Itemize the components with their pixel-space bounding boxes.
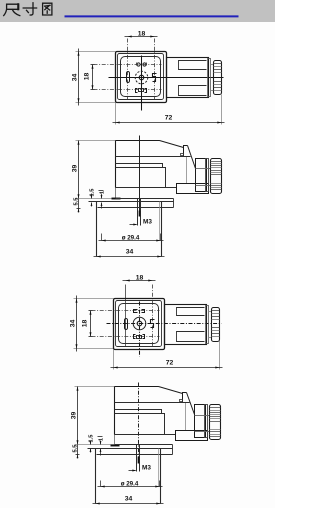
view 1A: cable housing inner recess upper	[179, 61, 207, 70]
view 1A: dim 18 horizontal - dimension line with arrows and label	[125, 36, 158, 38]
view 2A: cable housing inner recess lower	[177, 332, 205, 342]
view 2B: screw axis centerline	[138, 383, 140, 461]
view 2A: center dot	[139, 323, 140, 324]
view 2B: housing left edge lower (to mounting face)	[114, 435, 116, 445]
view 1B: clamp screw detail square	[181, 154, 184, 156]
view 1A: connector square body middle outline	[118, 54, 164, 100]
view 2A: connector square body middle outline	[116, 301, 162, 347]
view 1A: gland nut ridges	[214, 63, 222, 65]
view 1B: mounting face A line (with thick gasket mark)	[76, 198, 116, 200]
svg-text:34: 34	[70, 320, 77, 328]
view 1B: dim 1.5 - arrows and label	[91, 194, 93, 199]
view 2A: dim 34 vertical - extension lines	[74, 298, 114, 300]
view 1A: central screw boss circle (outer)	[135, 71, 148, 84]
view 2A: cable housing inner recess upper	[177, 308, 205, 316]
view 1B: dim 39 - top extension line	[76, 140, 116, 142]
view 1A: vertical centerline of square	[141, 56, 143, 111]
view 2B: clamp screw detail square	[180, 400, 183, 402]
view 2B: skirt right wall (extends to 34 dim)	[160, 449, 162, 504]
svg-text:72: 72	[165, 115, 173, 122]
view 2A: top contact pair (two small brackets)	[134, 310, 138, 313]
svg-text:ø 29.4: ø 29.4	[121, 481, 139, 488]
svg-text:39: 39	[72, 165, 79, 173]
view 1A: dim 34 vertical - extension lines	[76, 51, 116, 53]
view 2B: gland nut ridges	[210, 407, 221, 409]
view 2B: skirt left wall (extends to 34 dim)	[95, 449, 97, 504]
view 2B: M3 thread mark	[138, 457, 140, 464]
view 2B: gland support foot	[176, 431, 208, 441]
title 尺寸图 (chinese glyph strokes drawn as paths)	[4, 3, 52, 16]
view 2B: cable clamp hook	[183, 393, 187, 403]
view 2B: dim 1 - arrows and label	[100, 441, 102, 445]
view 1B: M3 thread mark	[139, 211, 141, 217]
view 2A: gland nut ridges	[212, 310, 220, 312]
view 2B: gland thread stem lines	[195, 415, 210, 417]
svg-text:18: 18	[136, 275, 144, 282]
view 2B: dim 5.5 - dimension line, arrows, label	[77, 445, 79, 459]
view 1B: skirt right wall inner line	[159, 202, 161, 241]
view 2B: body step line upper	[115, 410, 162, 414]
view 1A: top pin-row centerline horizontal	[94, 64, 162, 66]
view 1A: cable housing inner recess lower	[179, 86, 207, 96]
view 2A: right pin centerline vertical (extension of 18 dim)	[152, 285, 154, 347]
view 1A: dim 18 vertical - dimension line, arrows, label	[92, 65, 94, 90]
view 1B: housing top edge	[116, 140, 160, 142]
view 2A: gland thread stem lines	[209, 311, 212, 313]
view 2A: left pin centerline vertical (extension of 18 dim)	[125, 285, 127, 347]
view 2A: gland nut outline	[212, 308, 220, 342]
view 2B: housing rear chamfer	[187, 393, 195, 415]
view 1B: housing left edge lower (to mounting face)	[115, 188, 117, 199]
view 1B: flange right edge	[173, 199, 175, 208]
view 2B: M3 leader line and arrow	[129, 470, 136, 472]
view 2B: M3 screw hole walls	[136, 445, 138, 472]
view 1B: dim 1 - arrows and label	[101, 194, 103, 199]
svg-text:1: 1	[99, 437, 105, 441]
view 2B: body bottom edge above flange	[115, 434, 176, 436]
view 1B: dim 5.5 - dimension line, arrows, label	[78, 199, 80, 213]
view 1B: M3 leader line and arrow	[130, 224, 137, 226]
view 2A: top pin-row centerline horizontal	[92, 310, 160, 312]
svg-text:18: 18	[138, 31, 146, 38]
view 1A: center dot	[141, 77, 142, 78]
view 1B: gland body	[196, 159, 207, 192]
view 2B: housing top edge	[115, 386, 159, 388]
svg-text:34: 34	[125, 496, 133, 503]
view 2A: dim 72 - extension lines	[113, 350, 115, 370]
view 1A: dim 34 vertical - dimension line, arrows, label	[78, 49, 80, 106]
view 1B: skirt left wall (extends to 34 dim)	[96, 202, 98, 257]
view 2A: vertical centerline of square	[139, 302, 141, 357]
view 1B: socket inner face line	[98, 207, 174, 209]
view 1B: cable clamp hook	[184, 146, 188, 157]
view 1B: gland nut outline	[211, 159, 222, 194]
view 1B: housing rear chamfer	[188, 146, 196, 169]
svg-text:1.5: 1.5	[90, 188, 96, 197]
view 1A: right contact (bent ground tab)	[153, 74, 157, 82]
svg-text:34: 34	[72, 74, 79, 82]
svg-text:34: 34	[126, 249, 134, 256]
svg-text:18: 18	[82, 320, 89, 328]
view 2B: gasket bottom face B line	[88, 448, 173, 450]
view 2B: housing top chamfer	[159, 387, 183, 394]
view 1B: housing hidden back edge	[186, 157, 188, 184]
view 1B: seal circle extension stubs	[101, 234, 103, 241]
view 2A: central screw boss circle (outer)	[133, 317, 146, 330]
view 1B: dim 34 - dimension line, arrows, label	[94, 256, 165, 258]
view 2B: gland nut outline	[210, 405, 221, 440]
view 1A: dim 72 - dimension line, arrows, label	[113, 122, 225, 124]
svg-text:5.5: 5.5	[74, 197, 80, 206]
svg-text:5.5: 5.5	[73, 444, 79, 453]
view 1B: screw axis centerline	[139, 136, 141, 215]
view 1B: gland flange plate	[206, 159, 209, 192]
view 1B: skirt right wall (extends to 34 dim)	[161, 202, 163, 257]
view 2B: gland body	[195, 405, 206, 438]
view 1B: dim 39 - dimension line, arrows, label	[78, 141, 80, 199]
svg-text:1.5: 1.5	[89, 434, 95, 443]
view 2A: bottom pin-row centerline horizontal	[92, 336, 160, 338]
svg-text:M3: M3	[142, 465, 151, 472]
view 2A: connector square body outer outline	[114, 299, 165, 350]
glyph 图	[43, 3, 52, 15]
view 2A: horizontal centerline through body and gland	[107, 323, 222, 325]
svg-text:72: 72	[166, 360, 174, 367]
view 2A: cable housing block outline	[165, 305, 207, 345]
view 1B: body bottom edge above flange	[116, 187, 177, 189]
view 2B: dim ø29.4 - dimension line, arrows, label	[98, 486, 163, 488]
view 1A: cable housing block outline	[167, 58, 209, 98]
view 1A: dim 72 - extension lines	[115, 103, 117, 125]
view 2B: dim 34 - dimension line, arrows, label	[93, 503, 164, 505]
view 1A: connector square body inner rounded outline	[121, 57, 161, 97]
view 1A: left pin centerline vertical (extension of 18 dim)	[127, 39, 129, 101]
view 1A: bottom contact (horizontal slot with brackets)	[136, 89, 138, 93]
grey header bar	[0, 0, 275, 22]
view 2A: dim 72 - dimension line, arrows, label	[111, 367, 223, 369]
view 2B: flange right edge	[172, 445, 174, 455]
view 1B: gland support foot	[177, 184, 209, 194]
view 2A: dim 34 vertical - dimension line, arrows, label	[76, 296, 78, 352]
svg-text:39: 39	[71, 412, 78, 420]
view 1A: right pin centerline vertical (extension of 18 dim)	[154, 39, 156, 101]
view 1A: central screw hole circle (inner)	[139, 75, 144, 80]
view 2B: socket inner face line	[97, 454, 173, 456]
view 1B: M3 screw hole walls	[137, 199, 139, 226]
view 2A: dim 18 horizontal - dimension line with arrows and label	[123, 280, 156, 282]
view 1B: gasket bottom face B line	[89, 201, 174, 203]
view 1A: gland flange plate	[208, 59, 211, 97]
view 2A: connector square body inner rounded outline	[119, 304, 159, 344]
view 1A: gland nut outline	[214, 61, 222, 95]
view 2A: central screw hole circle (inner)	[137, 321, 142, 326]
view 1A: top contact pair (two small circles)	[137, 63, 140, 66]
view 2A: left contact (vertical slot)	[125, 319, 128, 330]
view 2B: seal circle extension stubs	[100, 481, 102, 487]
view 2B: dim 39 - dimension line, arrows, label	[77, 387, 79, 445]
glyph 寸	[23, 3, 36, 15]
svg-text:ø 29.4: ø 29.4	[122, 235, 140, 242]
view 1A: gland thread stem lines	[211, 64, 214, 66]
view 1B: body step line lower	[116, 168, 166, 188]
glyph 尺	[4, 4, 20, 15]
view 1B: housing split line	[116, 156, 191, 158]
view 2B: gland flange plate	[205, 405, 208, 438]
view 2A: gland flange plate	[206, 306, 209, 344]
view 2A: dim 18 vertical - dimension line, arrows, label	[90, 311, 92, 337]
view 1B: body step line upper	[116, 164, 163, 168]
view 2B: housing split line	[115, 402, 190, 404]
view 2B: dim 1.5 - arrows and label	[90, 441, 92, 445]
view 2B: dim 39 - top extension line	[75, 386, 115, 388]
view 2B: housing hidden back edge	[185, 403, 187, 431]
view 2A: right contact (bent ground tab)	[151, 320, 155, 328]
view 2B: mounting face A line (with thick gasket mark)	[75, 444, 115, 446]
svg-text:18: 18	[84, 73, 91, 81]
view 1B: gland thread stem lines	[196, 168, 211, 170]
view 2B: housing left edge	[114, 387, 116, 435]
view 1B: dim ø29.4 - dimension line, arrows, label	[99, 240, 164, 242]
view 1A: left contact (vertical slot)	[127, 72, 130, 83]
svg-text:M3: M3	[143, 219, 152, 226]
blue underline after title	[65, 15, 239, 17]
view 2B: skirt right wall inner line	[158, 449, 160, 487]
view 1B: housing left edge	[115, 141, 117, 188]
view 1B: housing top chamfer	[160, 141, 184, 148]
view 1A: bottom pin-row centerline horizontal	[94, 89, 162, 91]
view 1A: connector square body outer outline	[116, 52, 167, 103]
view 1B: gland nut ridges	[211, 161, 222, 163]
view 2A: bottom contact (horizontal slot with brackets)	[134, 335, 136, 339]
view 2B: body step line lower	[115, 414, 165, 435]
view 1A: horizontal centerline through body and gland	[109, 77, 224, 79]
